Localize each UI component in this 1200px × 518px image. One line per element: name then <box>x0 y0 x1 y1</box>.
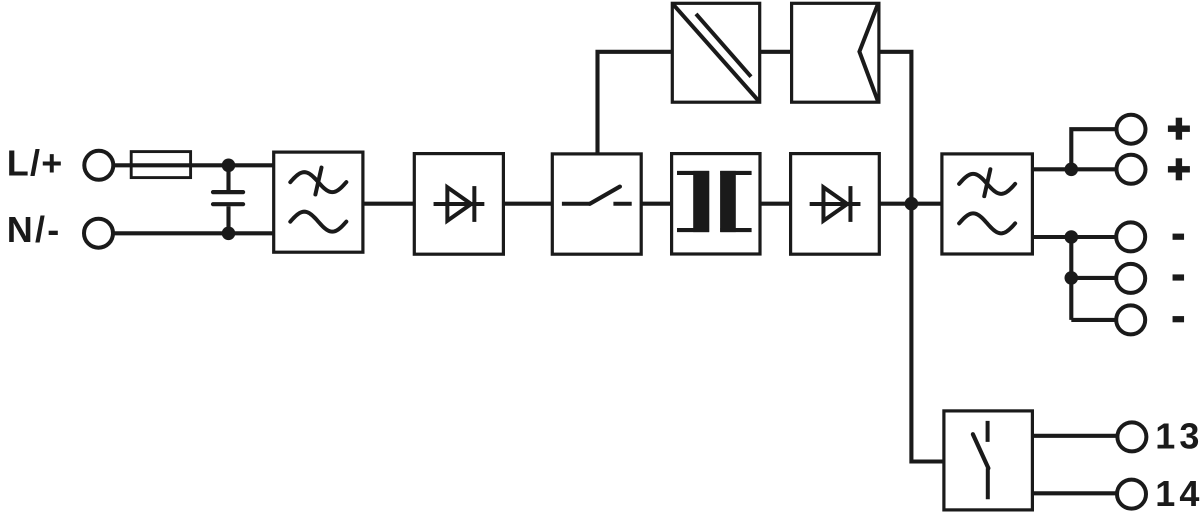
svg-text:13: 13 <box>1155 415 1200 456</box>
svg-text:L/+: L/+ <box>7 143 64 184</box>
svg-text:14: 14 <box>1155 473 1200 513</box>
svg-text:N/-: N/- <box>7 209 62 250</box>
